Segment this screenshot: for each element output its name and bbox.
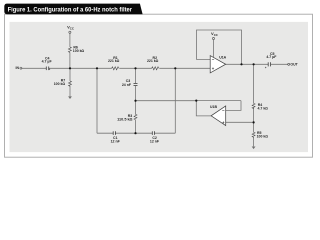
capacitor C2 xyxy=(152,131,154,135)
wire C3 junction to U1B loop xyxy=(136,100,197,102)
svg-text:100 kΩ: 100 kΩ xyxy=(257,134,269,138)
ground below R5 xyxy=(252,147,256,150)
wire R4 to divider node xyxy=(253,108,255,123)
wire R5 to ground xyxy=(253,137,255,146)
svg-text:U1B: U1B xyxy=(210,105,217,109)
wire C1 to mid node xyxy=(115,132,152,134)
power VCC left xyxy=(69,31,71,33)
wire U1B minus loop xyxy=(226,101,241,111)
node OUT terminal xyxy=(288,63,290,65)
wire R2 to U1A plus input xyxy=(159,67,210,69)
resistor R3 xyxy=(134,114,137,119)
wire R1 to R2 xyxy=(119,67,151,69)
figure frame xyxy=(5,14,313,157)
resistor R7 xyxy=(69,81,72,86)
wire mid node to C3 xyxy=(135,68,137,83)
svg-text:110.5 kΩ: 110.5 kΩ xyxy=(117,117,133,121)
svg-text:4.7 µF: 4.7 µF xyxy=(42,60,53,64)
svg-text:Figure 1. Configuration of a 6: Figure 1. Configuration of a 60-Hz notch… xyxy=(8,6,133,13)
wire VCC to R6 xyxy=(69,33,71,47)
svg-text:100 kΩ: 100 kΩ xyxy=(73,49,85,53)
resistor R2 xyxy=(152,67,159,70)
op-amp U1A xyxy=(210,56,226,73)
wire node to R5 xyxy=(253,122,255,132)
resistor R4 xyxy=(252,103,255,108)
node main left drop xyxy=(96,67,98,69)
svg-text:221 kΩ: 221 kΩ xyxy=(108,59,120,63)
node main C3 xyxy=(134,67,136,69)
svg-text:12 nF: 12 nF xyxy=(150,140,160,144)
resistor R1 xyxy=(112,67,119,70)
svg-text:4.7 kΩ: 4.7 kΩ xyxy=(258,106,269,110)
ground below R7 xyxy=(68,96,72,99)
wire C5 to OUT xyxy=(271,63,288,65)
wire IN to C4 xyxy=(22,67,46,69)
node R4/R5 divider xyxy=(253,121,255,123)
wire R3 to bottom rail xyxy=(135,120,137,133)
wire U1A power xyxy=(213,40,215,58)
svg-text:12 nF: 12 nF xyxy=(111,140,121,144)
node bottom rail R3 xyxy=(134,132,136,134)
wire U1A minus stub and feedback loop xyxy=(197,30,242,64)
svg-text:100 kΩ: 100 kΩ xyxy=(54,82,66,86)
capacitor C4 xyxy=(46,67,48,71)
node IN terminal xyxy=(20,67,22,69)
svg-text:IN: IN xyxy=(16,66,20,70)
wire R6 to main node xyxy=(69,52,71,68)
page background xyxy=(0,0,316,160)
node C3/R3 junction xyxy=(134,100,136,102)
capacitor C5 xyxy=(268,62,270,66)
wire left drop xyxy=(96,68,98,133)
wire mid junction to R3 xyxy=(135,101,137,115)
svg-text:U1A: U1A xyxy=(219,56,226,60)
node U1A feedback/output xyxy=(240,63,242,65)
wire R4 branch down xyxy=(253,64,255,103)
wire right drop xyxy=(174,68,176,133)
wire C2 to right corner xyxy=(155,132,176,134)
title tab xyxy=(4,4,142,15)
wire U1B top loop xyxy=(196,101,241,116)
junction dots xyxy=(69,63,255,134)
node main R6/R7 xyxy=(69,67,71,69)
wire R7 to ground xyxy=(69,86,71,97)
svg-text:4.7 µF: 4.7 µF xyxy=(266,55,277,59)
wire C4 to R1 xyxy=(49,67,112,69)
wire U1A output xyxy=(226,63,269,65)
op-amp U1B xyxy=(210,105,226,125)
power VCC U1A xyxy=(212,37,214,39)
svg-text:24 nF: 24 nF xyxy=(122,83,132,87)
wire bottom rail left to C1 xyxy=(97,132,113,134)
wire C3 to mid junction xyxy=(135,86,137,101)
capacitor C1 xyxy=(113,131,115,135)
wire U1B plus input xyxy=(226,121,254,123)
svg-text:OUT: OUT xyxy=(290,63,298,67)
resistor R6 xyxy=(68,47,71,52)
capacitor C3 xyxy=(134,83,138,85)
node output R4 branch xyxy=(253,63,255,65)
wire node to R7 xyxy=(69,68,71,81)
node main right drop xyxy=(174,67,176,69)
schematic gray panel xyxy=(10,22,309,152)
resistor R5 xyxy=(252,132,255,137)
svg-text:221 kΩ: 221 kΩ xyxy=(147,59,159,63)
node U1B loop left xyxy=(195,100,197,102)
